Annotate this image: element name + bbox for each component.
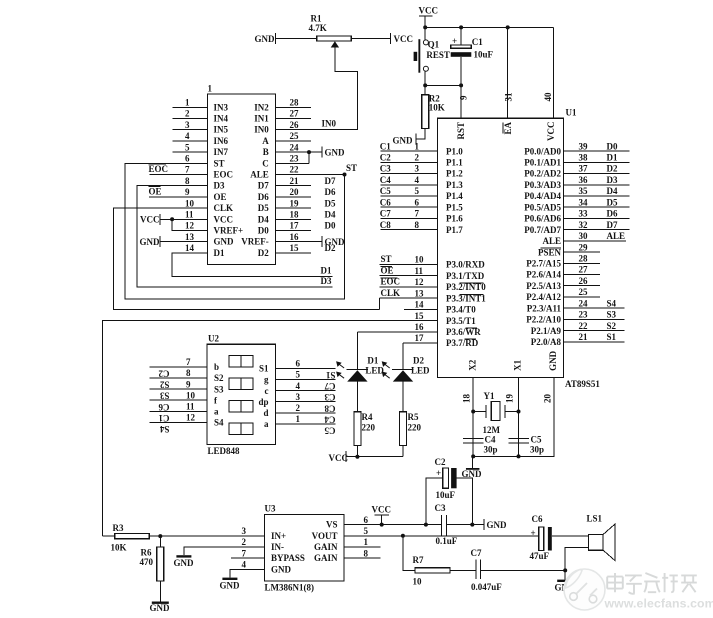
svg-text:13: 13 — [185, 232, 195, 242]
svg-text:GND: GND — [462, 469, 483, 479]
wire net ST: ADC pin22 ALE + pin6 ST — [276, 174, 345, 176]
svg-text:ALE: ALE — [250, 170, 269, 180]
svg-text:IN0: IN0 — [254, 125, 269, 135]
wire net D3 (ADC pin8) — [137, 186, 333, 287]
wire net OE (ADC pin9) — [149, 196, 208, 198]
svg-text:S1: S1 — [259, 364, 269, 374]
svg-text:7: 7 — [415, 209, 420, 219]
svg-text:0.1uF: 0.1uF — [436, 536, 458, 546]
wire net C8 / U1 pin 8 P1.7 — [381, 229, 438, 231]
svg-text:C7: C7 — [471, 548, 482, 558]
svg-text:30p: 30p — [530, 445, 544, 455]
svg-text:P3.5/T1: P3.5/T1 — [446, 316, 476, 326]
svg-text:Y1: Y1 — [484, 391, 495, 401]
capacitor C6 47uF — [539, 527, 544, 551]
svg-text:6: 6 — [185, 154, 190, 164]
resistor R2 10K — [424, 85, 426, 94]
wire X2 pin18 — [472, 378, 474, 457]
LED D1 — [356, 332, 358, 370]
wire U1 pin 25 P2.4/A12 — [564, 296, 601, 298]
svg-text:EOC: EOC — [149, 164, 169, 174]
wire R1 right — [351, 38, 390, 40]
svg-text:C7: C7 — [380, 209, 391, 219]
svg-text:2: 2 — [242, 537, 247, 547]
svg-text:C3: C3 — [324, 392, 335, 402]
svg-text:+: + — [531, 528, 536, 538]
svg-text:+: + — [452, 36, 457, 46]
svg-text:30p: 30p — [484, 445, 498, 455]
svg-text:7: 7 — [242, 548, 247, 558]
svg-text:P2.2/A10: P2.2/A10 — [526, 315, 561, 325]
svg-text:GND: GND — [220, 581, 241, 591]
svg-text:P0.0/AD0: P0.0/AD0 — [524, 146, 561, 156]
svg-text:B: B — [263, 147, 269, 157]
svg-text:34: 34 — [579, 197, 589, 207]
ground GND (VS decoupling) — [483, 519, 485, 530]
svg-text:3: 3 — [415, 164, 420, 174]
svg-text:20: 20 — [543, 394, 553, 404]
speaker LS1 — [588, 535, 603, 551]
svg-text:P0.4/AD4: P0.4/AD4 — [524, 191, 561, 201]
svg-text:25: 25 — [290, 131, 300, 141]
svg-text:a: a — [214, 407, 219, 417]
svg-text:GND: GND — [214, 237, 235, 247]
svg-text:13: 13 — [415, 288, 425, 298]
svg-text:www.elecfans.com: www.elecfans.com — [604, 597, 713, 611]
svg-text:7: 7 — [186, 357, 191, 367]
wire U1 pin16 to LED D1 — [357, 331, 437, 333]
svg-text:23: 23 — [290, 154, 300, 164]
svg-text:10uF: 10uF — [474, 50, 494, 60]
svg-text:BYPASS: BYPASS — [271, 553, 305, 563]
U2 pin 6 right net S1 — [276, 367, 336, 369]
svg-text:P1.4: P1.4 — [446, 191, 463, 201]
svg-text:S4: S4 — [607, 298, 617, 308]
svg-text:25: 25 — [579, 287, 589, 297]
svg-text:C2: C2 — [435, 457, 446, 467]
svg-text:C8: C8 — [324, 403, 335, 413]
wire U1 pin 10 P3.0/RXD — [380, 264, 438, 266]
svg-text:D3: D3 — [214, 181, 225, 191]
svg-text:ST: ST — [346, 163, 357, 173]
svg-text:LED: LED — [411, 366, 430, 376]
svg-text:P0.3/AD3: P0.3/AD3 — [524, 180, 561, 190]
wire net CLK jog into pin 13 — [378, 298, 380, 309]
svg-text:CLK: CLK — [214, 203, 234, 213]
svg-text:D5: D5 — [607, 197, 618, 207]
svg-text:D0: D0 — [325, 221, 336, 231]
svg-text:R4: R4 — [362, 412, 373, 422]
svg-text:4: 4 — [185, 131, 190, 141]
svg-text:C5: C5 — [324, 426, 335, 436]
wire GND pin20 — [473, 378, 554, 457]
svg-text:R1: R1 — [311, 14, 322, 24]
svg-text:P0.5/AD5: P0.5/AD5 — [524, 202, 561, 212]
svg-text:g: g — [264, 375, 269, 385]
svg-text:R5: R5 — [408, 412, 419, 422]
wire U1 pin 33 P0.6/AD6 net D6 — [564, 217, 630, 219]
svg-text:9: 9 — [185, 187, 190, 197]
svg-text:P2.3/A11: P2.3/A11 — [527, 303, 562, 313]
svg-text:R6: R6 — [141, 548, 152, 558]
svg-text:D0: D0 — [607, 141, 618, 151]
ground GND (R6) — [152, 602, 169, 604]
svg-text:D3: D3 — [607, 175, 618, 185]
svg-text:S2: S2 — [607, 321, 617, 331]
wire speaker return — [565, 548, 588, 580]
capacitor C5 30p — [508, 438, 529, 440]
svg-text:10K: 10K — [429, 103, 445, 113]
ground GND (U3 pin4) — [222, 578, 237, 580]
svg-text:IN-: IN- — [271, 542, 284, 552]
svg-text:38: 38 — [579, 153, 589, 163]
svg-text:28: 28 — [290, 98, 300, 108]
wire R1 wiper to IN0 — [331, 41, 339, 47]
amplifier U3 LM386N1(8) box — [265, 515, 344, 582]
svg-text:8: 8 — [186, 368, 191, 378]
svg-text:2: 2 — [415, 153, 420, 163]
wire ADC pin 16 — [276, 241, 311, 243]
svg-text:19: 19 — [290, 198, 300, 208]
svg-text:29: 29 — [579, 242, 589, 252]
wire ADC pin 15 — [276, 252, 311, 254]
wire net C3 / U1 pin 3 P1.2 — [381, 173, 438, 175]
svg-text:D7: D7 — [607, 220, 618, 230]
svg-text:3: 3 — [242, 526, 247, 536]
svg-text:P3.1/TXD: P3.1/TXD — [446, 271, 485, 281]
svg-text:P1.1: P1.1 — [446, 158, 463, 168]
ground GND (crystal) — [472, 456, 474, 468]
wire U1 pin17 to LED D2 — [403, 342, 438, 344]
svg-text:6: 6 — [296, 359, 301, 369]
svg-text:D3: D3 — [321, 276, 332, 286]
wire U1 pin 14 P3.4/T0 — [404, 308, 438, 310]
wire VCC rail top — [425, 26, 553, 28]
wire reset node — [425, 84, 461, 86]
svg-text:GND: GND — [393, 136, 414, 146]
svg-text:P1.3: P1.3 — [446, 180, 463, 190]
svg-text:IN4: IN4 — [214, 114, 229, 124]
svg-text:C3: C3 — [380, 164, 391, 174]
wire ADC pin 21 — [276, 185, 311, 187]
svg-text:GND: GND — [271, 564, 292, 574]
svg-text:a: a — [264, 419, 269, 429]
wire ADC pins 24,23 B,C to GND — [276, 151, 310, 153]
svg-text:27: 27 — [290, 109, 300, 119]
svg-text:X2: X2 — [468, 359, 478, 370]
wire U1 pin 36 P0.3/AD3 net D3 — [564, 184, 630, 186]
svg-text:C2: C2 — [380, 153, 391, 163]
svg-text:4.7K: 4.7K — [309, 23, 327, 33]
svg-text:12: 12 — [185, 221, 195, 231]
svg-text:U1: U1 — [566, 108, 577, 118]
svg-text:P3.0/RXD: P3.0/RXD — [446, 260, 485, 270]
svg-text:D5: D5 — [258, 203, 269, 213]
svg-text:VCC: VCC — [546, 122, 556, 142]
wire U3 pin2 IN- to GND — [184, 547, 265, 555]
svg-text:C: C — [262, 158, 269, 168]
svg-text:C3: C3 — [435, 503, 446, 513]
svg-text:LED848: LED848 — [208, 446, 241, 456]
wire ADC pin 19 — [276, 207, 311, 209]
svg-text:1: 1 — [296, 414, 301, 424]
svg-text:20: 20 — [290, 187, 300, 197]
svg-text:9: 9 — [186, 379, 191, 389]
svg-text:IN3: IN3 — [214, 102, 229, 112]
svg-text:D7: D7 — [325, 176, 336, 186]
svg-text:GND: GND — [255, 34, 276, 44]
wire VCC pin40 — [552, 27, 554, 118]
svg-text:12: 12 — [415, 277, 425, 287]
U2 pin 5 right net C7 — [276, 379, 336, 381]
svg-text:220: 220 — [362, 423, 376, 433]
svg-text:0.047uF: 0.047uF — [471, 582, 502, 592]
svg-text:P2.4/A12: P2.4/A12 — [526, 292, 561, 302]
svg-text:EOC: EOC — [214, 170, 234, 180]
svg-text:P2.1/A9: P2.1/A9 — [531, 326, 562, 336]
svg-text:A: A — [262, 136, 269, 146]
wire net C5 / U1 pin 5 P1.4 — [381, 195, 438, 197]
svg-text:VS: VS — [326, 520, 338, 530]
svg-text:D1: D1 — [214, 248, 225, 258]
svg-text:11: 11 — [185, 210, 194, 220]
svg-text:IN2: IN2 — [254, 102, 269, 112]
svg-text:D6: D6 — [325, 187, 336, 197]
wire U3 pin6 VS rail — [344, 524, 442, 526]
svg-text:OE: OE — [149, 187, 162, 197]
svg-text:33: 33 — [579, 209, 589, 219]
svg-text:32: 32 — [579, 220, 589, 230]
svg-text:C6: C6 — [380, 197, 391, 207]
svg-text:D2: D2 — [607, 164, 618, 174]
wire U1 pin 21 P2.0/A8 net S1 — [564, 341, 625, 343]
svg-text:GND: GND — [487, 520, 508, 530]
svg-text:R7: R7 — [413, 555, 424, 565]
svg-text:C6: C6 — [158, 402, 169, 412]
svg-text:LS1: LS1 — [587, 514, 603, 524]
svg-text:19: 19 — [505, 394, 515, 404]
svg-text:24: 24 — [579, 298, 589, 308]
wire net D1 (ADC pin14) — [172, 253, 333, 276]
svg-text:C4: C4 — [380, 175, 391, 185]
svg-text:40: 40 — [543, 92, 553, 102]
svg-text:5: 5 — [296, 370, 301, 380]
svg-text:S3: S3 — [214, 384, 224, 394]
svg-text:IN5: IN5 — [214, 125, 229, 135]
svg-text:P0.1/AD1: P0.1/AD1 — [524, 158, 561, 168]
wire net C1 / U1 pin 1 P1.0 — [381, 150, 438, 152]
wire ADC pin 17 — [276, 230, 311, 232]
wire net EOC (ADC pin7) — [150, 174, 208, 176]
svg-text:ALE: ALE — [542, 236, 561, 246]
svg-text:28: 28 — [579, 254, 589, 264]
svg-text:8: 8 — [415, 220, 420, 230]
svg-text:10: 10 — [186, 390, 196, 400]
crystal Y1 12M — [473, 411, 486, 413]
wire U3 pin8 GAIN stub — [344, 557, 381, 559]
capacitor C2 10uF — [426, 478, 443, 524]
svg-text:C1: C1 — [472, 37, 483, 47]
svg-text:14: 14 — [415, 300, 425, 310]
svg-text:D4: D4 — [325, 210, 336, 220]
svg-text:220: 220 — [408, 423, 422, 433]
svg-text:P1.7: P1.7 — [446, 225, 463, 235]
resistor R4 220 — [354, 412, 361, 446]
svg-text:GND: GND — [140, 237, 161, 247]
wire U3 pin4 GND — [230, 569, 265, 577]
svg-text:VREF+: VREF+ — [214, 226, 244, 236]
svg-text:31: 31 — [504, 92, 514, 102]
svg-text:GND: GND — [174, 558, 195, 568]
pushbutton Q1 REST — [424, 27, 426, 39]
svg-text:8: 8 — [185, 176, 190, 186]
wire ADC pin 20 — [276, 196, 311, 198]
svg-text:21: 21 — [290, 176, 300, 186]
svg-text:3: 3 — [296, 392, 301, 402]
svg-text:VCC: VCC — [372, 505, 392, 515]
svg-text:1: 1 — [415, 141, 420, 151]
svg-text:IN+: IN+ — [271, 531, 286, 541]
svg-text:D1: D1 — [321, 266, 332, 276]
svg-text:PSEN: PSEN — [538, 247, 562, 257]
ground GND (R2) — [415, 134, 417, 145]
svg-text:10: 10 — [415, 255, 425, 265]
svg-text:Q1: Q1 — [428, 39, 440, 49]
wire U3 pin1 GAIN stub — [344, 546, 381, 548]
wire U1 pin 34 P0.5/AD5 net D5 — [564, 206, 630, 208]
wire net C2 / U1 pin 2 P1.1 — [381, 161, 438, 163]
svg-text:VREF-: VREF- — [241, 237, 269, 247]
svg-text:2: 2 — [185, 109, 190, 119]
svg-text:GAIN: GAIN — [314, 553, 338, 563]
U2 pin 8 left net S2 — [150, 377, 207, 379]
svg-text:CLK: CLK — [381, 288, 401, 298]
resistor R6 470 — [159, 536, 161, 547]
svg-text:C1: C1 — [158, 413, 169, 423]
svg-text:10uF: 10uF — [436, 490, 456, 500]
svg-text:D4: D4 — [258, 214, 269, 224]
svg-text:P1.2: P1.2 — [446, 169, 463, 179]
wire U3 pin5 VOUT — [344, 535, 539, 537]
svg-text:D2: D2 — [413, 356, 424, 366]
svg-text:26: 26 — [579, 276, 589, 286]
svg-text:REST: REST — [426, 50, 450, 60]
svg-text:D5: D5 — [325, 198, 336, 208]
svg-text:5: 5 — [415, 186, 420, 196]
svg-text:P1.5: P1.5 — [446, 202, 463, 212]
svg-text:GND: GND — [150, 603, 171, 613]
svg-text:22: 22 — [579, 321, 589, 331]
wire ADC pin25 A — [276, 140, 311, 142]
svg-text:35: 35 — [579, 186, 589, 196]
svg-text:23: 23 — [579, 310, 589, 320]
watermark elecfans logo — [564, 569, 605, 610]
ground GND (U3 IN-) — [176, 555, 191, 557]
svg-text:11: 11 — [415, 266, 424, 276]
svg-text:S2: S2 — [159, 380, 169, 390]
svg-text:D4: D4 — [607, 186, 618, 196]
watermark text — [607, 573, 697, 594]
wire U1 pin 32 P0.7/AD7 net D7 — [564, 229, 630, 231]
svg-text:P2.5/A13: P2.5/A13 — [526, 281, 561, 291]
svg-text:IN0: IN0 — [322, 119, 337, 129]
svg-text:P2.6/A14: P2.6/A14 — [526, 270, 561, 280]
svg-text:C2: C2 — [158, 369, 169, 379]
svg-text:S4: S4 — [159, 424, 169, 434]
svg-text:D6: D6 — [258, 192, 269, 202]
svg-text:21: 21 — [579, 332, 589, 342]
svg-text:IN1: IN1 — [254, 114, 269, 124]
U2 inner digit segments — [229, 356, 241, 368]
svg-text:S2: S2 — [214, 373, 224, 383]
svg-text:S4: S4 — [214, 418, 224, 428]
wire net C4 / U1 pin 4 P1.3 — [381, 184, 438, 186]
svg-text:12: 12 — [186, 413, 196, 423]
svg-text:X1: X1 — [513, 359, 523, 370]
U2 pin 1 right net C5 — [276, 423, 336, 425]
svg-text:26: 26 — [290, 120, 300, 130]
wire U1 pin 13 P3.3/INT1 — [379, 297, 437, 299]
svg-text:GND: GND — [548, 350, 558, 371]
svg-text:36: 36 — [579, 175, 589, 185]
U2 pin 11 left net C1 — [150, 410, 207, 412]
wire net CLK (ADC pin10) — [113, 208, 379, 309]
wire U1 pin 29 PSEN — [564, 251, 601, 253]
wire U1 pin 30 ALE net ALE — [564, 240, 627, 242]
U2 pin 7 left net C2 — [150, 366, 207, 368]
svg-text:ST: ST — [214, 158, 225, 168]
svg-text:2: 2 — [296, 403, 301, 413]
capacitor C4 30p — [463, 438, 484, 440]
capacitor C7 0.047uF — [475, 560, 477, 580]
svg-text:16: 16 — [290, 232, 300, 242]
svg-text:4: 4 — [242, 560, 247, 570]
svg-text:C6: C6 — [532, 514, 543, 524]
svg-text:3: 3 — [185, 120, 190, 130]
svg-text:S1: S1 — [607, 332, 617, 342]
svg-text:S3: S3 — [607, 310, 617, 320]
svg-text:OE: OE — [214, 192, 227, 202]
svg-text:24: 24 — [290, 142, 300, 152]
svg-text:47uF: 47uF — [530, 551, 550, 561]
svg-text:18: 18 — [462, 394, 472, 404]
svg-text:GND: GND — [325, 237, 346, 247]
svg-text:VCC: VCC — [329, 453, 349, 463]
wire U1 pin 27 P2.6/A14 — [564, 274, 601, 276]
svg-text:IN6: IN6 — [214, 136, 229, 146]
svg-text:6: 6 — [364, 515, 369, 525]
svg-text:C1: C1 — [380, 141, 391, 151]
svg-text:8: 8 — [364, 548, 369, 558]
svg-text:IN7: IN7 — [214, 147, 229, 157]
svg-text:C8: C8 — [380, 220, 391, 230]
wire U1 pin 12 P3.2/INT0 — [380, 286, 438, 288]
svg-text:14: 14 — [185, 243, 195, 253]
wire X1 pin19 — [518, 378, 520, 457]
svg-text:5: 5 — [185, 142, 190, 152]
wire U1 pin 35 P0.4/AD4 net D4 — [564, 195, 630, 197]
svg-text:30: 30 — [579, 231, 589, 241]
svg-text:1: 1 — [208, 84, 213, 94]
wire R1 left — [276, 38, 317, 40]
svg-text:U2: U2 — [208, 334, 219, 344]
svg-text:VCC: VCC — [214, 214, 234, 224]
wire U1 pin 11 P3.1/TXD — [380, 275, 438, 277]
svg-text:1: 1 — [185, 98, 190, 108]
display U2 LED848 box — [207, 344, 276, 444]
svg-text:VCC: VCC — [394, 34, 414, 44]
svg-text:D6: D6 — [607, 209, 618, 219]
